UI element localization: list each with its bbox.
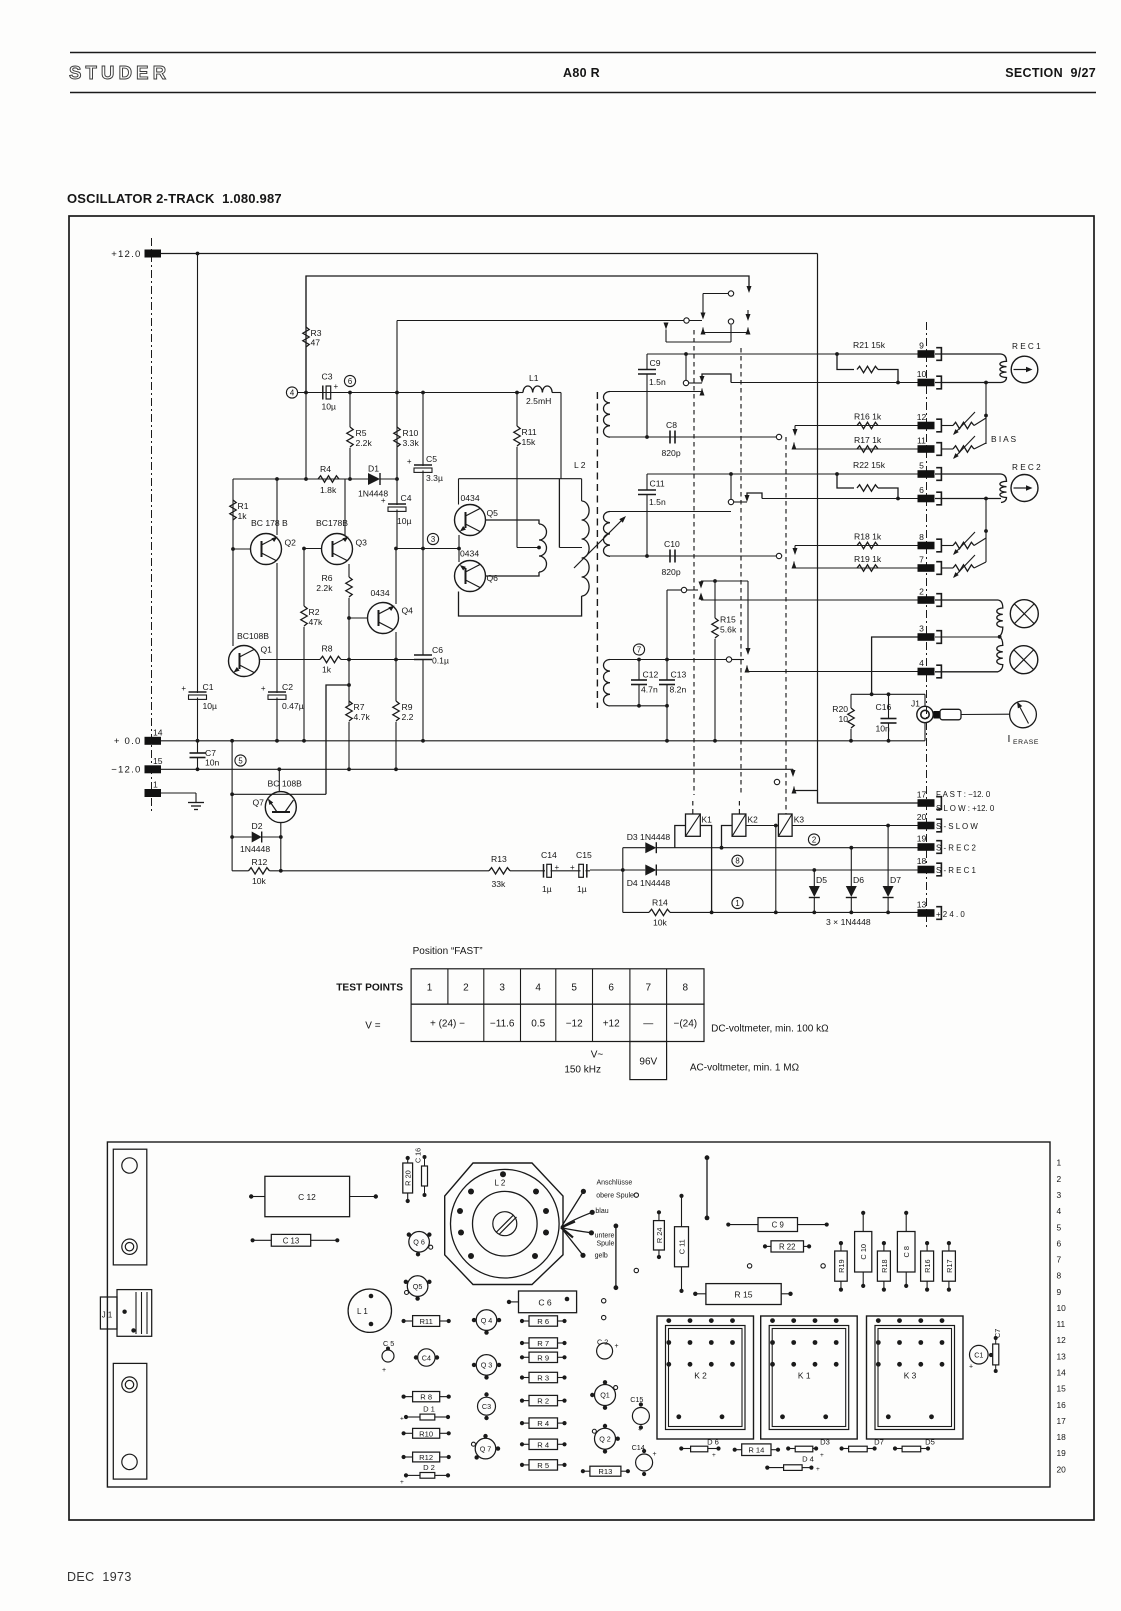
pcb C8 (897, 1232, 915, 1273)
wire -12 rail (161, 768, 793, 770)
wire -12 to contact (792, 769, 794, 771)
svg-text:R 4: R 4 (537, 1419, 549, 1428)
svg-text:R13: R13 (598, 1467, 612, 1476)
svg-text:R16 1k: R16 1k (854, 412, 882, 422)
svg-text:10: 10 (1057, 1303, 1067, 1313)
svg-text:8.2n: 8.2n (670, 685, 687, 695)
head erase1 winding (935, 599, 998, 601)
svg-text:C12: C12 (643, 670, 659, 680)
svg-text:BC 108B: BC 108B (268, 779, 303, 789)
transistor Q6 (455, 561, 486, 592)
wire node7 contact (726, 657, 731, 662)
wire Q7 emitter (280, 823, 282, 871)
pcb R22 (771, 1241, 804, 1252)
wire emitters to Q7 (326, 685, 349, 794)
svg-text:K3: K3 (794, 815, 805, 825)
svg-text:SECTION 9/27: SECTION 9/27 (1005, 66, 1096, 80)
svg-text:R20: R20 (832, 704, 848, 714)
wire pin4 row (747, 671, 918, 673)
pin 11 (918, 445, 935, 453)
svg-text:D3: D3 (820, 1438, 830, 1447)
wire bias net2 (984, 497, 988, 501)
pin 15 (145, 765, 162, 773)
svg-text:D7: D7 (874, 1438, 884, 1447)
contact arrow bias2 lower (792, 562, 797, 569)
wire pin11 row (794, 448, 918, 450)
wire sec2 bottom (610, 555, 776, 557)
transistor Q5 (455, 505, 486, 536)
svg-text:S - S L O W: S - S L O W (936, 822, 978, 831)
svg-text:19: 19 (1057, 1448, 1067, 1458)
wire node3 (397, 548, 459, 550)
pcb R8 (413, 1392, 440, 1402)
svg-text:5.6k: 5.6k (720, 625, 737, 635)
pcb L1 (348, 1289, 391, 1332)
svg-text:D 1: D 1 (423, 1405, 435, 1414)
svg-text:20: 20 (917, 812, 927, 822)
contact k2 rec2 upper (730, 474, 732, 499)
wire pin1 ground stub (161, 792, 196, 794)
svg-text:2.2k: 2.2k (316, 583, 333, 593)
svg-text:0.47µ: 0.47µ (282, 701, 304, 711)
table row1 (411, 969, 704, 1004)
drawing frame (69, 216, 1094, 1520)
capacitor C13 (665, 658, 669, 662)
inductor L1 (517, 392, 523, 394)
contact arrow pin4 (745, 666, 750, 673)
head erase2 winding (997, 637, 1003, 672)
capacitor C15 (579, 864, 584, 877)
svg-text:4: 4 (1057, 1206, 1062, 1216)
svg-text:15: 15 (153, 756, 163, 766)
svg-text:R10: R10 (403, 428, 419, 438)
resistor R14 (623, 911, 649, 913)
wire osc top (459, 478, 582, 480)
wire pin7 row (794, 567, 918, 569)
board edge dash-dot left (151, 238, 153, 812)
svg-text:Q 2: Q 2 (599, 1434, 611, 1443)
capacitor C16 (888, 694, 890, 718)
svg-text:0434: 0434 (460, 549, 479, 559)
svg-text:R 8: R 8 (420, 1393, 432, 1402)
svg-text:+: + (712, 1452, 716, 1459)
svg-text:2: 2 (1057, 1174, 1062, 1184)
svg-text:L1: L1 (529, 373, 539, 383)
node 3 (427, 533, 438, 544)
svg-text:ERASE: ERASE (1013, 739, 1039, 746)
pin 6 (918, 495, 935, 503)
svg-text:R 20: R 20 (404, 1170, 413, 1186)
pin 19 (918, 843, 935, 851)
svg-text:7: 7 (637, 645, 641, 654)
svg-text:5: 5 (571, 983, 577, 994)
svg-text:+: + (570, 863, 575, 872)
wire +12 drop right (817, 254, 819, 791)
capacitor C6 (422, 549, 424, 656)
wire osc top drop (458, 479, 460, 505)
svg-text:1: 1 (1057, 1158, 1062, 1168)
svg-text:+: + (381, 496, 386, 505)
contact arrow bias1 lower (792, 443, 797, 450)
wire pin17 link (794, 791, 918, 804)
capacitor C7 (197, 741, 199, 753)
wire R3 to node4 (305, 393, 307, 480)
capacitor C12 (637, 658, 641, 662)
table row2 (411, 1004, 704, 1041)
svg-text:+12: +12 (603, 1019, 620, 1030)
svg-text:C 10: C 10 (859, 1244, 868, 1260)
wire Q7 base column (231, 741, 233, 871)
svg-text:17: 17 (917, 790, 927, 800)
pin 13 (918, 909, 935, 917)
pcb resistor column (529, 1316, 558, 1326)
wire pin8 row (795, 545, 918, 547)
svg-text:C1: C1 (203, 682, 214, 692)
svg-text:Position “FAST”: Position “FAST” (413, 946, 483, 957)
svg-text:3.3µ: 3.3µ (426, 473, 443, 483)
wire C13 riser (666, 590, 668, 660)
svg-text:K 1: K 1 (798, 1371, 811, 1381)
svg-text:18: 18 (1057, 1432, 1067, 1442)
svg-text:1.5n: 1.5n (649, 377, 666, 387)
wire pin10 row (731, 382, 918, 384)
svg-text:2: 2 (919, 587, 924, 597)
resistor R17 (857, 446, 878, 452)
wire pin2 row (701, 599, 918, 601)
svg-text:J 1: J 1 (102, 1311, 112, 1320)
head REC1 (1011, 356, 1038, 383)
svg-text:D2: D2 (252, 821, 263, 831)
svg-text:R 22: R 22 (779, 1242, 795, 1251)
pcb R11 (413, 1316, 440, 1327)
svg-text:C15: C15 (576, 850, 592, 860)
svg-text:D3 1N4448: D3 1N4448 (627, 832, 671, 842)
pcb C14 (636, 1454, 653, 1471)
relay K1 dashes up (693, 330, 695, 795)
svg-text:2.2k: 2.2k (356, 438, 373, 448)
wire pin5 row (647, 473, 918, 475)
svg-text:C16: C16 (876, 702, 892, 712)
svg-text:+: + (181, 684, 186, 693)
capacitor C2 (268, 691, 286, 693)
svg-text:C4: C4 (401, 493, 412, 503)
svg-text:11: 11 (917, 436, 926, 446)
svg-text:10µ: 10µ (397, 516, 412, 526)
svg-text:R 6: R 6 (537, 1317, 549, 1326)
capacitor C1 (197, 254, 199, 694)
svg-text:4.7k: 4.7k (354, 712, 371, 722)
svg-text:2.2: 2.2 (402, 712, 414, 722)
resistor R12 (232, 870, 248, 872)
wire Q5 emitter (486, 520, 540, 524)
svg-text:33k: 33k (492, 879, 507, 889)
svg-text:R11: R11 (419, 1317, 432, 1326)
trimmer P4 (941, 567, 953, 569)
svg-text:12: 12 (917, 412, 927, 422)
svg-text:7: 7 (919, 555, 924, 565)
contact k3 fast/slow (774, 779, 779, 784)
svg-text:8: 8 (683, 983, 689, 994)
svg-text:−(24): −(24) (673, 1019, 697, 1030)
svg-text:R 7: R 7 (537, 1339, 549, 1348)
resistor R2 (303, 549, 305, 607)
svg-text:C1: C1 (974, 1351, 983, 1360)
svg-text:+ 2 4 . 0: + 2 4 . 0 (936, 910, 965, 919)
svg-text:20: 20 (1057, 1464, 1067, 1474)
svg-text:C5: C5 (426, 454, 437, 464)
wire Q2 emitter (276, 563, 278, 693)
svg-text:R 15: R 15 (734, 1290, 752, 1300)
wire node4 rail (298, 392, 518, 394)
svg-text:10n: 10n (876, 724, 891, 734)
pcb R12 (413, 1452, 440, 1462)
svg-text:1: 1 (427, 983, 433, 994)
pcb Q1 (595, 1385, 616, 1406)
svg-text:C10: C10 (664, 539, 680, 549)
svg-text:+: + (407, 457, 412, 466)
svg-text:96V: 96V (639, 1057, 657, 1068)
svg-text:R 5: R 5 (537, 1461, 549, 1470)
svg-text:2: 2 (812, 835, 816, 844)
svg-text:+: + (820, 1452, 824, 1459)
svg-text:15k: 15k (522, 437, 537, 447)
svg-text:Anschlüsse: Anschlüsse (597, 1180, 633, 1187)
svg-text:47k: 47k (309, 617, 324, 627)
svg-text:12: 12 (1057, 1335, 1067, 1345)
svg-text:R17: R17 (945, 1259, 954, 1273)
svg-text:R 9: R 9 (537, 1353, 549, 1362)
connector edge dash-dot right (926, 322, 928, 928)
svg-text:1.5n: 1.5n (649, 497, 666, 507)
svg-text:3: 3 (1057, 1190, 1062, 1200)
svg-text:0434: 0434 (461, 493, 480, 503)
transistor Q7 (265, 792, 296, 823)
svg-text:+ (24) −: + (24) − (430, 1019, 465, 1030)
svg-text:R22 15k: R22 15k (853, 460, 886, 470)
svg-text:K 3: K 3 (904, 1371, 917, 1381)
pcb R13 (590, 1466, 621, 1476)
svg-text:D7: D7 (890, 875, 901, 885)
svg-text:6: 6 (919, 485, 924, 495)
contact arrow pin2 (699, 593, 704, 600)
svg-text:Q7: Q7 (253, 798, 265, 808)
svg-text:C 6: C 6 (538, 1298, 552, 1308)
svg-text:R18: R18 (880, 1259, 889, 1273)
svg-text:1N4448: 1N4448 (240, 844, 270, 854)
svg-text:+: + (334, 382, 339, 391)
diode D6 (849, 846, 853, 850)
resistor R6 (346, 577, 352, 597)
svg-text:BC108B: BC108B (237, 631, 269, 641)
winding L2 primary (582, 501, 590, 596)
pin 17 (918, 799, 935, 807)
svg-text:7: 7 (1057, 1255, 1062, 1265)
relay K1 (686, 814, 701, 836)
box 96V (630, 1042, 667, 1080)
wire Q3 emitter (348, 564, 350, 577)
wire +12 rail (161, 253, 818, 255)
svg-text:C11: C11 (650, 479, 665, 489)
svg-text:3: 3 (499, 983, 505, 994)
svg-text:R15: R15 (720, 615, 736, 625)
pcb C2 (597, 1343, 613, 1359)
wire Q4 collector (395, 549, 397, 605)
resistor R22 (835, 472, 839, 476)
pcb relay K3 (867, 1316, 964, 1439)
pcb R24 (654, 1221, 665, 1250)
svg-text:Q5: Q5 (413, 1282, 423, 1291)
pcb open pads (634, 1268, 638, 1272)
svg-text:5: 5 (238, 756, 243, 765)
resistor R5 (349, 393, 351, 428)
diode D2 (232, 836, 252, 838)
svg-text:Q 4: Q 4 (481, 1316, 493, 1325)
svg-text:Q1: Q1 (600, 1391, 610, 1400)
svg-text:R19: R19 (837, 1259, 846, 1273)
head REC1 winding (935, 353, 1001, 355)
svg-text:17: 17 (1057, 1416, 1067, 1426)
wire Q5/Q6 bases (458, 535, 460, 562)
svg-text:10µ: 10µ (203, 701, 218, 711)
svg-text:D 6: D 6 (707, 1438, 719, 1447)
svg-text:+: + (400, 1416, 404, 1423)
svg-text:C 2: C 2 (597, 1338, 608, 1347)
svg-text:OSCILLATOR 2-TRACK 1.080.987: OSCILLATOR 2-TRACK 1.080.987 (67, 191, 282, 206)
wire K2 right to K3 (746, 825, 779, 827)
pcb Q2 (595, 1428, 616, 1449)
transistor Q4 (368, 603, 399, 634)
wire 0V rail (161, 740, 925, 742)
svg-text:BC 178 B: BC 178 B (251, 518, 288, 528)
pcb R19 (835, 1251, 848, 1281)
svg-text:R10: R10 (419, 1429, 433, 1438)
diode D4 (590, 869, 645, 871)
svg-text:R16: R16 (923, 1259, 932, 1273)
pcb L2 octagon (445, 1163, 563, 1285)
svg-text:47: 47 (311, 338, 321, 348)
svg-text:C3: C3 (322, 372, 333, 382)
svg-text:DEC 1973: DEC 1973 (67, 1570, 132, 1584)
node 6 (344, 375, 355, 386)
node 1 circle (732, 897, 743, 908)
pcb C6 (519, 1291, 577, 1313)
svg-text:1.8k: 1.8k (320, 485, 337, 495)
L2 core dash (596, 392, 598, 708)
svg-text:1: 1 (153, 780, 158, 790)
svg-text:11: 11 (1057, 1319, 1066, 1329)
svg-text:blau: blau (595, 1208, 608, 1215)
resistor R1 (230, 500, 236, 520)
contact arrow from coil (700, 389, 705, 396)
svg-text:820p: 820p (662, 567, 681, 577)
pcb outline (107, 1142, 1050, 1487)
svg-text:+: + (653, 1451, 657, 1458)
pin 4 (918, 668, 935, 676)
svg-text:Q1: Q1 (261, 645, 273, 655)
wire y320 (397, 320, 702, 322)
svg-text:+: + (969, 1364, 973, 1371)
svg-text:Q 6: Q 6 (413, 1238, 425, 1247)
svg-text:R E C 2: R E C 2 (1012, 463, 1041, 472)
wire D3/D4 link (622, 848, 624, 913)
contact arrow top right (747, 286, 752, 293)
svg-text:D1: D1 (368, 464, 379, 474)
resistor R10 (396, 393, 398, 428)
pin 3 (918, 633, 935, 641)
winding L2 sec2 (610, 511, 731, 513)
pcb C7 (993, 1344, 999, 1365)
svg-text:10k: 10k (653, 918, 668, 928)
pin 20 (918, 822, 935, 830)
svg-text:R19 1k: R19 1k (854, 554, 882, 564)
pcb L2 wires (561, 1191, 583, 1227)
wire erase mid (935, 636, 1001, 638)
svg-text:R 3: R 3 (537, 1374, 549, 1383)
pcb R14 (742, 1444, 771, 1456)
winding L2 sec1 (610, 391, 702, 393)
pcb Q4 (476, 1310, 497, 1331)
svg-text:R18 1k: R18 1k (854, 532, 882, 542)
resistor R13 (489, 868, 510, 874)
node 8 circle (732, 855, 743, 866)
wire K2 pins (722, 826, 733, 848)
svg-text:R 4: R 4 (537, 1440, 549, 1449)
pcb C4 (418, 1349, 435, 1366)
svg-text:8: 8 (1057, 1271, 1062, 1281)
pcb C16 (422, 1166, 428, 1186)
node 4 (286, 387, 297, 398)
svg-text:R14: R14 (652, 898, 668, 908)
svg-text:D6: D6 (853, 875, 864, 885)
pcb C12 (265, 1176, 350, 1216)
resistor R20 (850, 694, 852, 708)
svg-text:1µ: 1µ (542, 884, 552, 894)
svg-text:R17 1k: R17 1k (854, 435, 882, 445)
resistor R11 (516, 393, 518, 427)
pcb Q5 (407, 1276, 428, 1297)
svg-text:gelb: gelb (595, 1253, 608, 1260)
resistor R18 (857, 542, 878, 548)
capacitor C8 (669, 431, 671, 444)
relay K2 (732, 814, 746, 836)
svg-text:3 × 1N4448: 3 × 1N4448 (826, 917, 871, 927)
node 5 (235, 755, 246, 766)
node 7 (633, 644, 644, 655)
capacitor C10 (669, 550, 671, 563)
svg-text:Spule: Spule (597, 1241, 615, 1248)
svg-text:+: + (816, 1466, 820, 1473)
svg-text:S L O W : +12. 0: S L O W : +12. 0 (936, 804, 995, 813)
svg-text:Q 7: Q 7 (480, 1444, 492, 1453)
pcb jumper 1 (615, 1226, 617, 1288)
svg-text:14: 14 (153, 727, 163, 737)
resistor R3 (303, 327, 309, 347)
wire Q1 base column (232, 549, 234, 646)
pcb C13 (271, 1234, 310, 1246)
header rule bottom (70, 92, 1096, 94)
diode D5 (812, 868, 816, 872)
wire bias net1 (984, 381, 988, 385)
svg-text:B I A S: B I A S (991, 434, 1017, 444)
pcb R18 (877, 1251, 890, 1281)
pin 5 (918, 470, 935, 478)
svg-text:−12: −12 (566, 1019, 583, 1030)
svg-text:1k: 1k (238, 511, 248, 521)
meter I erase (1010, 701, 1037, 728)
svg-text:10: 10 (917, 369, 927, 379)
svg-text:K1: K1 (702, 815, 713, 825)
svg-text:3.3k: 3.3k (403, 438, 420, 448)
